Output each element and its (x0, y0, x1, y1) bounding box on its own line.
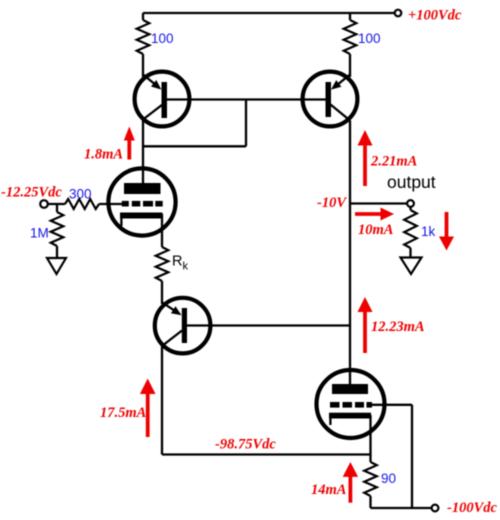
svg-text:100: 100 (151, 31, 174, 46)
svg-text:90: 90 (381, 471, 396, 486)
svg-text:-10V: -10V (317, 195, 347, 211)
svg-text:1k: 1k (421, 224, 436, 239)
svg-text:R: R (172, 254, 182, 270)
svg-text:12.23mA: 12.23mA (371, 319, 425, 335)
svg-text:300: 300 (69, 187, 92, 202)
svg-text:-98.75Vdc: -98.75Vdc (215, 437, 276, 453)
svg-text:14mA: 14mA (311, 482, 347, 498)
svg-text:17.5mA: 17.5mA (100, 405, 147, 421)
svg-text:-12.25Vdc: -12.25Vdc (1, 185, 62, 201)
svg-text:output: output (387, 172, 436, 192)
svg-text:1.8mA: 1.8mA (84, 147, 123, 163)
svg-text:100: 100 (358, 31, 381, 46)
svg-text:10mA: 10mA (358, 222, 394, 238)
svg-text:+100Vdc: +100Vdc (408, 8, 462, 24)
svg-text:1M: 1M (30, 226, 49, 241)
svg-text:k: k (183, 261, 189, 273)
svg-text:-100Vdc: -100Vdc (447, 500, 498, 516)
svg-text:2.21mA: 2.21mA (370, 154, 418, 170)
